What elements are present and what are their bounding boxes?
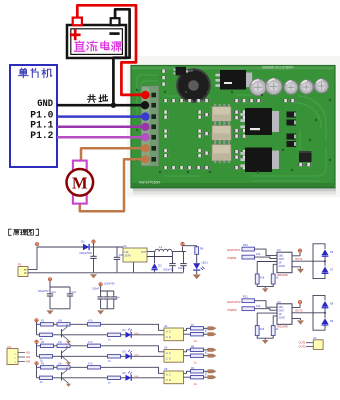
svg-text:100nF: 100nF <box>92 288 99 291</box>
svg-text:2GND: 2GND <box>279 318 286 320</box>
U1 ground stub <box>133 262 135 272</box>
row 1 resistor Ra <box>41 323 54 326</box>
row 3 wire LED to opto <box>132 377 164 379</box>
decoupling cap bank B power symbol <box>99 283 102 286</box>
row 3 resistor Rg <box>191 376 204 379</box>
power symbol VCC input <box>35 243 38 246</box>
terminal dot blue <box>141 112 149 120</box>
row 1 resistor Rf <box>191 327 204 330</box>
row 1 port EN1 <box>208 326 217 330</box>
svg-text:100uF/5V: 100uF/5V <box>38 290 49 293</box>
dark component bottom right <box>299 151 312 162</box>
optocoupler U5 <box>212 126 231 141</box>
electrolytic capacitors <box>250 79 266 95</box>
PCB board shadow <box>133 188 336 192</box>
svg-text:P3: P3 <box>8 345 12 349</box>
row 3 output wires <box>184 371 191 373</box>
svg-text:R6: R6 <box>200 247 204 251</box>
MCU label text <box>18 68 51 78</box>
bank A wires <box>50 281 70 287</box>
driver block 2 pulldown wires <box>257 313 277 326</box>
PCB copper traces <box>137 75 326 181</box>
P1.0 wire <box>57 115 142 118</box>
LED1 ground <box>196 270 198 274</box>
row 2 resistor Ra <box>41 344 54 347</box>
svg-text:1R: 1R <box>279 314 282 316</box>
svg-text:GB6285-V2.0-(P)2007: GB6285-V2.0-(P)2007 <box>262 66 294 70</box>
svg-text:A C: A C <box>166 373 171 376</box>
battery + sign <box>70 33 81 36</box>
P1.2 wire <box>57 136 142 139</box>
svg-text:D1: D1 <box>81 239 85 243</box>
svg-text:2GND: 2GND <box>279 266 286 268</box>
small SMD parts top-left <box>161 70 166 73</box>
svg-text:220uF/35: 220uF/35 <box>163 268 174 271</box>
svg-text:100uF/5V: 100uF/5V <box>104 283 115 286</box>
driver block 1 input wires <box>255 249 278 256</box>
svg-text:4.7k: 4.7k <box>88 320 93 323</box>
ground junction dot <box>111 103 116 108</box>
motor body rectangle <box>73 161 87 204</box>
row 3 transistor Q <box>61 372 63 381</box>
wire input rail <box>37 246 83 248</box>
battery - sign <box>109 32 119 35</box>
svg-text:OUT2: OUT2 <box>295 309 303 313</box>
svg-text:U4: U4 <box>277 300 281 304</box>
row 2 port PWM2 <box>208 354 217 358</box>
svg-text:2IN1: 2IN1 <box>279 307 285 309</box>
motor wire bottom <box>80 159 142 211</box>
bank B wires <box>101 286 114 291</box>
row 1 transistor Q <box>61 329 63 338</box>
bank A ground <box>47 310 54 314</box>
svg-text:OUT1: OUT1 <box>295 257 303 261</box>
bank A cap C12 <box>67 293 73 295</box>
svg-text:U6: U6 <box>164 367 168 371</box>
svg-text:IN2: IN2 <box>26 355 31 359</box>
wire P1 pin2 to rail <box>28 272 37 274</box>
svg-text:P1.2: P1.2 <box>30 130 53 142</box>
row 1 optocoupler U4 <box>164 328 184 341</box>
row 1 resistor Rb <box>57 323 70 326</box>
5V output power symbol <box>182 247 184 252</box>
driver block 2 output rail <box>313 295 325 330</box>
row 1 resistor Rc <box>88 323 101 326</box>
row 2 optocoupler U5 <box>164 350 184 363</box>
decoupling cap bank A power symbol <box>48 278 51 281</box>
row 3 power symbol <box>35 362 38 365</box>
svg-text:A C: A C <box>166 352 171 355</box>
red wire battery + to PCB <box>77 5 141 95</box>
row 3 resistor Rb <box>57 366 70 369</box>
connector P1 <box>18 267 28 277</box>
row 2 wires <box>36 344 38 357</box>
svg-text:C E: C E <box>166 379 171 382</box>
black wire battery - to ground junction <box>113 9 129 105</box>
P1.1 wire <box>57 126 142 129</box>
inductor L1 <box>155 249 172 251</box>
svg-text:HW-STP150N: HW-STP150N <box>139 181 160 185</box>
svg-text:100uF: 100uF <box>178 267 186 270</box>
row 2 LED D2 <box>126 353 132 359</box>
common ground label <box>87 95 107 103</box>
svg-text:OUT2: OUT2 <box>299 344 306 348</box>
row 3 resistor Re <box>108 376 121 379</box>
driver block 1 diode top <box>322 249 329 255</box>
driver block 2 diode bottom <box>322 318 329 324</box>
svg-text:U5: U5 <box>164 345 168 349</box>
row 2 power symbol <box>35 340 38 343</box>
svg-text:2VD7: 2VD7 <box>279 311 285 313</box>
svg-text:R16: R16 <box>260 277 265 280</box>
driver block 2 IC ground <box>292 318 301 320</box>
row 3 optocoupler U6 <box>164 371 184 384</box>
wire R1 to LED1 <box>196 254 198 263</box>
SOT-23 transistor top-left <box>176 67 187 76</box>
indicator LED1 <box>193 263 200 269</box>
row 2 output wires <box>184 350 191 352</box>
driver block 1 VCC <box>292 252 300 256</box>
row 3 resistor Rc <box>88 366 101 369</box>
svg-text:U3: U3 <box>277 248 281 252</box>
row 1 output wires <box>184 328 191 330</box>
svg-text:C11: C11 <box>52 291 57 294</box>
motor output connector P2 <box>313 340 323 350</box>
svg-text:OUT: OUT <box>141 251 147 254</box>
svg-text:L1: L1 <box>159 245 163 249</box>
row 2 resistor Rg <box>191 354 204 357</box>
driver block 2 pulldown resistor Ra <box>255 326 259 336</box>
svg-text:C12: C12 <box>72 291 77 294</box>
SMD resistor clusters <box>163 99 168 102</box>
svg-text:R16: R16 <box>260 328 265 331</box>
battery + terminal <box>73 18 82 26</box>
battery DC power supply <box>67 25 126 58</box>
driver block 1 diode bottom <box>322 267 329 273</box>
svg-text:IN3: IN3 <box>26 360 31 364</box>
PCB photo background <box>127 56 340 197</box>
terminal dot orange motor- <box>141 155 149 163</box>
row 2 resistor Re <box>108 355 121 358</box>
svg-text:A C: A C <box>166 330 171 333</box>
driver block 2 IC U4 <box>277 304 292 325</box>
TO-263 mosfet Q upper-right <box>245 108 272 135</box>
svg-text:10k: 10k <box>256 304 261 308</box>
row 2 resistor Rb <box>57 344 70 347</box>
svg-text:2IN1: 2IN1 <box>279 256 285 258</box>
wire L1 to output node <box>172 251 186 253</box>
row 2 wire LED to opto <box>132 355 164 357</box>
driver block 2 output wire <box>292 312 325 314</box>
row 2 transistor Q <box>61 351 63 360</box>
svg-text:PWM1: PWM1 <box>228 256 237 260</box>
row 2 transistor ground <box>67 361 69 363</box>
driver block 2 input wires <box>255 301 278 308</box>
row 3 resistor Rf <box>191 370 204 373</box>
row 2 port EN2 <box>208 348 217 352</box>
row 1 resistor Re <box>108 333 121 336</box>
row 3 port EN3 <box>208 369 217 373</box>
row 2 resistor Rd lower <box>40 355 53 358</box>
svg-text:2VD7: 2VD7 <box>279 259 285 261</box>
svg-text:U1: U1 <box>123 244 127 248</box>
svg-text:LED1: LED1 <box>202 261 209 264</box>
row 1 power symbol <box>35 319 38 322</box>
svg-text:EN/OUT2: EN/OUT2 <box>228 300 241 304</box>
driver block 2 pulldown ground <box>257 336 273 339</box>
row 3 transistor ground <box>67 382 69 384</box>
svg-text:C E: C E <box>166 358 171 361</box>
terminal dot red <box>141 91 149 99</box>
row 1 wire LED to opto <box>132 334 164 336</box>
row 3 port PWM3 <box>208 375 217 379</box>
svg-text:IN1: IN1 <box>26 351 31 355</box>
driver block 2 resistor R1y <box>242 307 255 311</box>
svg-text:OUT1: OUT1 <box>299 341 306 345</box>
driver block 1 IC U3 <box>277 252 292 273</box>
svg-text:R10: R10 <box>243 243 248 247</box>
driver block 1 pulldown ground <box>257 284 273 287</box>
driver block 1 IC ground <box>292 267 301 269</box>
driver block 1 output wire <box>292 260 325 262</box>
driver block 1 pulldown wires <box>257 262 277 275</box>
row 3 wires <box>36 365 38 378</box>
schematic title 原理图 <box>9 229 39 235</box>
svg-text:M: M <box>72 173 88 192</box>
MCU box <box>10 65 57 167</box>
row 3 resistor Ra <box>41 366 54 369</box>
svg-text:2576: 2576 <box>125 254 132 258</box>
row 3 LED D3 <box>126 375 132 381</box>
optocoupler U6 <box>212 145 231 161</box>
terminal dot purple P1.1 <box>141 123 149 131</box>
SMD diodes right column <box>287 112 297 118</box>
PCB terminal block <box>141 86 159 166</box>
svg-text:IR2104S: IR2104S <box>277 325 288 329</box>
driver block 1 pulldown resistor Ra <box>255 274 259 284</box>
vias and pads <box>164 91 166 93</box>
svg-text:IR2104S: IR2104S <box>277 273 288 277</box>
svg-text:100uF/50V: 100uF/50V <box>79 251 92 255</box>
svg-text:4.7k: 4.7k <box>88 341 93 344</box>
svg-text:EN/OUT1: EN/OUT1 <box>228 248 241 252</box>
terminal dot purple P1.2 <box>141 133 149 141</box>
output cap C4 <box>183 252 185 264</box>
ground rail <box>28 272 184 274</box>
svg-text:4.7k: 4.7k <box>88 363 93 366</box>
driver block 1 pulldown resistor Rb <box>271 274 275 284</box>
row 1 transistor ground <box>67 339 69 341</box>
row 1 LED D1 <box>126 332 132 338</box>
row 1 resistor Rd lower <box>40 333 53 336</box>
optocoupler U4 <box>212 107 231 122</box>
row 2 resistor Rf <box>191 348 204 351</box>
driver block 1 output rail <box>313 244 325 279</box>
driver block 2 diode top <box>322 301 329 307</box>
ground arrow main rail <box>90 274 97 278</box>
GND wire <box>57 104 142 107</box>
output cap C3 <box>172 252 174 264</box>
battery - terminal <box>111 18 120 25</box>
svg-text:PWM2: PWM2 <box>228 308 237 312</box>
input cap C2 <box>116 247 118 257</box>
battery label text <box>74 41 122 51</box>
row 2 resistor Rc <box>88 344 101 347</box>
freewheel diode D2 <box>154 252 156 264</box>
regulator U1 LM2576 <box>123 248 147 262</box>
indicator resistor R1 <box>183 245 197 247</box>
svg-text:R11: R11 <box>243 295 248 299</box>
TO-263 mosfet Q lower-right <box>245 148 272 173</box>
feedback wire <box>147 256 173 258</box>
toroid inductor <box>177 69 210 102</box>
terminal dot black <box>141 101 149 109</box>
svg-text:C E: C E <box>166 336 171 339</box>
wire P1 pin1 to VCC node <box>28 247 37 270</box>
PCB board <box>131 66 335 188</box>
driver block 2 resistor R1x <box>242 299 255 303</box>
svg-text:10k: 10k <box>256 252 261 256</box>
driver block 2 pulldown resistor Rb <box>271 326 275 336</box>
power symbol at C1 <box>92 240 95 243</box>
driver block 1 resistor R1x <box>242 247 255 251</box>
bank A cap C11 <box>47 293 53 295</box>
svg-text:P1: P1 <box>18 263 22 267</box>
diode D1 <box>83 244 89 250</box>
wire U1 out to L1 <box>147 251 155 253</box>
driver block 1 resistor R1y <box>242 255 255 259</box>
connector P3 <box>7 349 18 365</box>
row 1 wires <box>36 322 38 335</box>
svg-text:U4: U4 <box>164 324 168 328</box>
svg-text:D2: D2 <box>158 264 162 268</box>
terminal dot orange motor+ <box>141 144 149 152</box>
bank B ground <box>97 310 104 314</box>
TO-263 regulator U10 <box>220 70 246 90</box>
svg-text:104: 104 <box>116 297 121 300</box>
motor wire top <box>81 148 142 161</box>
driver block 2 VCC <box>292 304 300 308</box>
svg-text:GND: GND <box>37 98 53 110</box>
row 3 resistor Rd lower <box>40 376 53 379</box>
row 1 resistor Rg <box>191 333 204 336</box>
input cap C1 <box>93 247 95 256</box>
motor circle M <box>67 169 94 196</box>
wire D1 to U1 <box>90 246 123 248</box>
row 1 port PWM1 <box>208 332 217 336</box>
svg-text:1R: 1R <box>279 263 282 265</box>
